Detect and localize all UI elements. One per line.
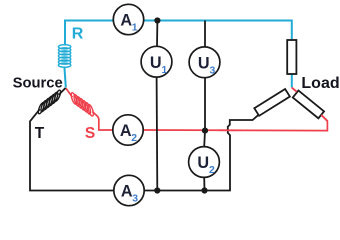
svg-text:A: A <box>121 183 133 201</box>
coil R (source, cyan) <box>58 45 70 68</box>
svg-text:Source: Source <box>13 75 63 91</box>
svg-text:2: 2 <box>209 165 215 176</box>
svg-text:U: U <box>198 55 210 73</box>
svg-text:R: R <box>72 26 84 43</box>
svg-text:S: S <box>85 125 95 142</box>
wire voltmeter U2 branch <box>203 131 206 191</box>
svg-text:Load: Load <box>301 75 339 92</box>
svg-text:U: U <box>150 54 162 72</box>
svg-text:T: T <box>35 125 45 142</box>
svg-text:3: 3 <box>210 66 216 77</box>
wire voltmeter U1 branch <box>156 21 159 191</box>
wire red stub at load star point <box>292 88 297 92</box>
svg-text:U: U <box>197 154 209 172</box>
svg-text:1: 1 <box>132 22 138 33</box>
node junction dot red line (U2/U3 tap) <box>202 128 208 134</box>
wire R-phase top cyan <box>64 21 291 88</box>
wire voltmeter U3 branch <box>204 21 206 131</box>
svg-text:A: A <box>120 12 132 30</box>
node junction dot bottom right (U2 return) <box>201 187 207 193</box>
voltmeter U1 <box>141 46 172 77</box>
wire S-phase red <box>66 88 328 131</box>
load resistor vertical (R phase) <box>287 40 296 74</box>
svg-text:1: 1 <box>162 65 168 76</box>
ammeter A1 <box>113 4 143 34</box>
node junction dot bottom left (U1 return) <box>154 187 160 193</box>
voltmeter U3 <box>189 47 220 78</box>
svg-text:3: 3 <box>132 193 138 204</box>
wire red over hop crossing <box>219 129 241 131</box>
ammeter A3 <box>114 175 144 205</box>
svg-text:2: 2 <box>131 133 137 144</box>
svg-text:A: A <box>120 122 132 140</box>
load resistor right (S phase) <box>293 91 324 119</box>
voltmeter U2 <box>189 147 220 178</box>
wire T-phase black <box>30 88 258 191</box>
wire red stub at right load resistor lower end <box>321 115 327 121</box>
coil T (source, black) <box>37 89 62 114</box>
ammeter A2 <box>113 115 143 145</box>
node junction dot top (U1 tap) <box>154 17 160 23</box>
coil S (source, red) <box>70 92 94 117</box>
load resistor left (T phase) <box>254 89 290 116</box>
